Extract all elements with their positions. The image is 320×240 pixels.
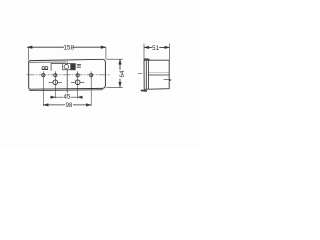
dimension 51 line — [144, 46, 169, 48]
lens bottom shadow line — [29, 89, 103, 92]
dimension 64 bottom arrow — [119, 82, 122, 87]
hole H1 side dashes — [49, 81, 62, 83]
extension line left of 51 — [143, 44, 145, 62]
extension line top of 64 — [107, 58, 123, 60]
screw S4 — [90, 74, 93, 77]
dimension 45 outer tails — [50, 96, 83, 98]
hole H2 — [75, 80, 80, 85]
screw S1 — [42, 74, 45, 77]
side view top-left gasket bump — [144, 58, 150, 61]
screw S3 vertical extension — [77, 71, 79, 98]
extension line right of 158 — [105, 47, 107, 59]
label 98 — [65, 102, 73, 108]
dimension 64 line vertical — [119, 59, 121, 87]
dimension 98 line — [43, 104, 91, 106]
side view body outline — [144, 60, 169, 89]
horizontal centerline through screws — [27, 74, 110, 76]
leader line to plate window — [51, 64, 63, 71]
svg-text:45: 45 — [63, 94, 70, 101]
hole H2 side dashes — [71, 81, 84, 83]
lens inner top line — [29, 61, 66, 63]
screw S3 — [76, 74, 79, 77]
extension line bottom of 64 — [106, 86, 122, 88]
screw S2 vertical extension — [54, 71, 56, 98]
side view lens front edge — [145, 61, 147, 90]
vertical centerline stub above plate box — [66, 61, 68, 63]
dimension 158 line — [27, 46, 106, 48]
extension line right of 51 — [168, 44, 170, 61]
dimension 45 left arrow — [51, 96, 56, 99]
licence plate window box — [63, 64, 76, 70]
dimension 45 line — [55, 96, 77, 98]
triple lines right of window — [77, 65, 81, 68]
screw S2 — [54, 74, 57, 77]
dark socket cell in plate window — [71, 64, 75, 70]
screw S4 vertical extension — [90, 71, 92, 106]
dimension 51 left arrow — [144, 46, 149, 49]
svg-text:64: 64 — [119, 70, 126, 78]
side view upper seam line — [148, 72, 169, 74]
side view connector stub — [164, 79, 172, 80]
extension line left of 158 — [27, 47, 29, 60]
svg-text:98: 98 — [65, 102, 72, 109]
svg-text:51: 51 — [152, 45, 159, 52]
dimension 98 left arrow — [43, 104, 48, 107]
side view bottom-left foot — [141, 89, 147, 92]
centerline dash left of side view — [138, 73, 142, 75]
plate window divider — [70, 64, 72, 70]
front view lamp outline — [29, 59, 106, 89]
vertical centerline below plate box — [66, 70, 68, 95]
label 64 rotated — [118, 70, 125, 79]
cable entry base — [42, 69, 49, 71]
hole H1 — [53, 80, 58, 85]
label 45 — [63, 93, 71, 99]
bulb circle in plate window — [64, 65, 68, 69]
dimension 64 top arrow — [119, 59, 122, 64]
dimension 158 left arrow — [27, 46, 32, 49]
svg-text:158: 158 — [63, 45, 74, 52]
label 51 — [152, 44, 159, 50]
dimension 51 right arrow — [165, 46, 170, 49]
dimension 158 right arrow — [101, 46, 106, 49]
label 158 — [64, 44, 73, 51]
side view main seam line — [148, 74, 169, 76]
cable entry twin circles — [42, 67, 45, 70]
side view housing flange line — [147, 61, 149, 90]
dimension 45 right arrow — [78, 96, 83, 99]
screw S1 vertical extension — [42, 71, 44, 106]
dimension 98 right arrow — [86, 104, 91, 107]
